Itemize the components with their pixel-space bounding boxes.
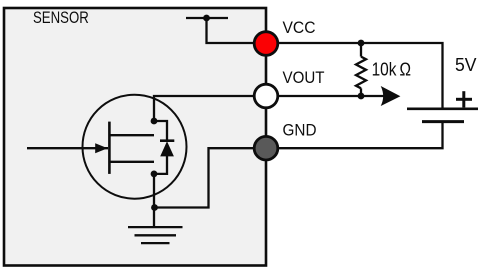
internal VCC stub bar: [186, 17, 228, 19]
wire drain up to VOUT pin: [154, 96, 266, 121]
wire GND rail: [266, 122, 443, 149]
wire drain horizontal: [109, 134, 154, 136]
gate arrow: [95, 143, 107, 153]
wire VOUT rail: [266, 95, 384, 97]
ground symbol: [128, 227, 183, 243]
sensor box: [4, 8, 266, 266]
pin VOUT: [254, 84, 278, 108]
wire VCC rail: [266, 43, 443, 109]
junction dot on stub: [203, 15, 210, 22]
node resistor bottom: [358, 93, 365, 100]
mosfet Q1 body circle: [83, 95, 187, 199]
battery plate negative: [422, 120, 464, 123]
svg-text:GND: GND: [283, 121, 317, 140]
output arrow: [381, 86, 401, 106]
wire source down to ground: [153, 174, 155, 227]
wire source horizontal: [109, 161, 154, 163]
resistor R1 10k: [356, 43, 366, 96]
node drain junction: [151, 118, 158, 125]
battery B1: [407, 109, 478, 122]
svg-text:VCC: VCC: [283, 18, 316, 37]
plus sign: [456, 91, 472, 107]
svg-text:5V: 5V: [455, 55, 477, 75]
wire gate lead: [27, 147, 108, 149]
gate bar: [108, 122, 111, 174]
svg-text:VOUT: VOUT: [283, 68, 325, 87]
battery plate positive: [407, 108, 478, 111]
body diode D1: [154, 121, 174, 174]
node resistor top: [358, 40, 365, 47]
wire source node to GND pin: [155, 148, 267, 207]
pin GND: [254, 136, 278, 160]
node source junction: [151, 171, 158, 178]
svg-text:10k Ω: 10k Ω: [372, 59, 411, 79]
svg-text:SENSOR: SENSOR: [33, 8, 89, 27]
wire stub to VCC pin: [207, 18, 267, 43]
pin VCC: [254, 32, 278, 56]
node ground junction: [151, 204, 158, 211]
